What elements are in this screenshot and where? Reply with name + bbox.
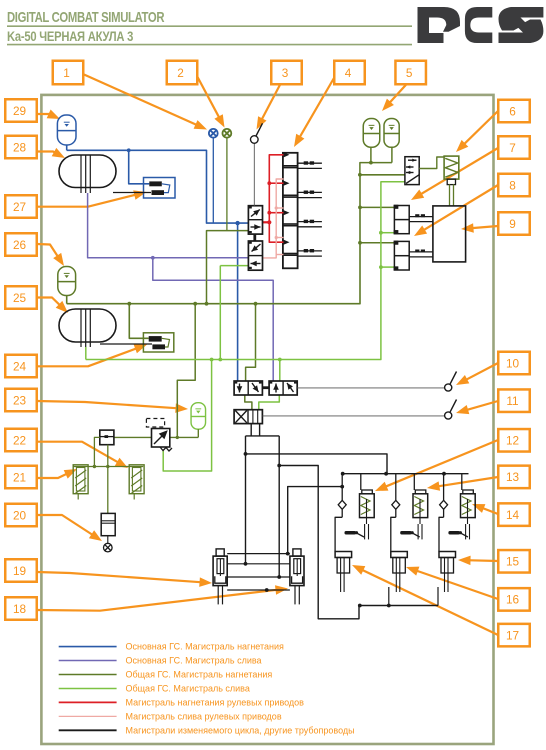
wire square to filter rail — [94, 437, 99, 466]
callout line 2 — [197, 76, 221, 120]
drain tank 20 — [101, 513, 115, 535]
diagram border frame — [41, 95, 493, 744]
pump 27 drive shaft — [113, 192, 151, 194]
callout line 13 — [435, 477, 498, 487]
junction lgreen valveB — [278, 358, 282, 362]
callout box 21 — [5, 466, 37, 489]
callout box 20 — [5, 504, 37, 527]
wire reducer bus right — [170, 436, 199, 438]
svg-text:15: 15 — [506, 555, 520, 569]
wire manifold h1 — [246, 435, 280, 437]
callout line 14 — [479, 507, 498, 514]
legend item 3 — [59, 674, 117, 676]
callout box 28 — [5, 136, 37, 159]
wire lgreen pumpA return — [381, 232, 395, 234]
junction dgreen swash branch — [254, 302, 258, 306]
wire v 245 — [245, 436, 247, 564]
wire lgreen reducer loop — [163, 360, 211, 472]
callout box 6 — [498, 100, 530, 123]
callout box 12 — [498, 429, 530, 452]
pump 24 drive shaft — [100, 343, 152, 345]
header rule 2 — [7, 44, 412, 46]
brake actuator 2 — [391, 552, 408, 593]
wire red stub 2 — [269, 182, 283, 184]
wire dgreen valveA to Xvalve — [245, 395, 252, 410]
EDV stem 12 — [364, 524, 366, 539]
EDV valve 14 — [461, 474, 463, 490]
pump 7 shaft — [409, 216, 433, 218]
accumulator 5b — [384, 119, 399, 148]
pump 24 (common sys) — [143, 333, 173, 352]
callout line 6 — [462, 111, 498, 146]
junction dgreen pumpA — [358, 206, 362, 210]
switch 11 signal wire — [262, 415, 445, 417]
switch 3 — [251, 123, 263, 143]
junction dgreen main corner — [358, 173, 362, 177]
junction rail l — [341, 472, 345, 476]
junction dgreen pump24 — [127, 302, 131, 306]
actuator rail 590 — [227, 589, 290, 591]
wire lgreen return main — [86, 182, 405, 360]
junction acc bus — [369, 161, 373, 165]
landing gear actuator 19 — [213, 549, 227, 605]
filter 21a — [73, 465, 88, 500]
wire red servo manifold — [269, 155, 283, 242]
callout box 17 — [498, 624, 530, 647]
wire dgreen relief to tank9 — [449, 184, 451, 206]
servo valve block 4 — [283, 152, 298, 268]
wire bottom loop — [318, 555, 359, 619]
legend item 7 — [59, 729, 117, 731]
callout box 7 — [498, 136, 530, 159]
callout box 10 — [498, 352, 530, 375]
svg-text:2: 2 — [177, 66, 184, 80]
svg-text:3: 3 — [282, 66, 289, 80]
svg-text:20: 20 — [13, 508, 27, 522]
callout line 22 — [37, 442, 121, 464]
wire dgreen to pump24 — [129, 304, 148, 339]
wire h 487 — [288, 487, 343, 554]
valve A (swash ctrl) — [234, 381, 262, 395]
callout line 1 — [84, 75, 200, 127]
wire actC down — [437, 587, 439, 606]
valve A-B link — [262, 386, 269, 389]
relief valve 6 (spring) — [444, 156, 459, 185]
accumulator 29 (main sys) — [57, 115, 76, 145]
callout box 5 — [395, 61, 426, 85]
wire bottom rail — [359, 605, 438, 607]
wire dgreen radiator to relief — [419, 157, 444, 169]
switch 10 signal wire — [297, 387, 445, 389]
svg-text:24: 24 — [13, 359, 27, 373]
svg-text:17: 17 — [506, 628, 519, 642]
wire actB down — [388, 587, 390, 606]
EDV valve 13 — [413, 474, 415, 490]
callout line 7 — [418, 148, 498, 196]
filter rail — [73, 466, 143, 468]
svg-text:Общая ГС. Магистраль слива: Общая ГС. Магистраль слива — [126, 683, 250, 693]
wire red stub 3 — [269, 212, 283, 214]
junction lgreen pumpB return — [379, 265, 383, 269]
svg-text:25: 25 — [13, 291, 27, 305]
callout line 28 — [37, 152, 58, 155]
pressure reducer 22 — [146, 419, 172, 452]
accumulator 26 (common sys) — [58, 267, 76, 296]
legend item 6 — [59, 715, 117, 717]
actuator rail 564 — [227, 563, 290, 565]
callout box 27 — [5, 195, 37, 218]
callout line 17 — [359, 568, 498, 635]
EDV stem 14 — [465, 524, 467, 539]
wire Xvalve down right — [259, 424, 261, 436]
wire edv rail — [343, 473, 469, 475]
filter 21b — [129, 465, 144, 500]
junction act 280 — [277, 575, 281, 579]
wire lgreen pumpB return — [381, 266, 395, 268]
junction lgreen reducer loop — [210, 358, 214, 362]
wire acc23 stub — [197, 429, 199, 437]
callout line 11 — [464, 401, 498, 411]
junction rail r — [442, 472, 446, 476]
wire blue to pump27 — [129, 150, 150, 184]
svg-text:16: 16 — [506, 593, 520, 607]
wire v 279 — [278, 436, 280, 577]
callout box 22 — [5, 429, 37, 452]
callout line 5 — [387, 85, 406, 105]
svg-text:27: 27 — [13, 200, 26, 214]
wire to actuator 2 — [391, 517, 396, 551]
legend item 4 — [59, 687, 117, 689]
wire drain stub — [107, 536, 109, 544]
svg-text:21: 21 — [13, 470, 26, 484]
svg-text:5: 5 — [406, 66, 413, 80]
wire dgreen down to swash valve A — [246, 304, 256, 381]
wire lgreen valveA drain — [219, 266, 221, 360]
callout box 24 — [5, 355, 37, 378]
junction pink 3 — [275, 236, 278, 239]
wire pink stub 2 — [276, 207, 283, 209]
callout line 16 — [414, 570, 498, 599]
callout box 9 — [498, 212, 530, 235]
junction dgreen reducer branch — [193, 302, 197, 306]
pump 7 block — [394, 206, 409, 234]
hand lever 2 — [400, 531, 412, 535]
junction act 287 — [286, 552, 290, 556]
svg-text:Ka-50 ЧЕРНАЯ АКУЛА 3: Ka-50 ЧЕРНАЯ АКУЛА 3 — [7, 29, 133, 44]
junction dgreen valve branch — [205, 302, 209, 306]
callout line 4 — [298, 78, 334, 140]
legend item 5 — [59, 701, 117, 703]
header rule 1 — [7, 25, 412, 27]
callout line 27 — [37, 194, 139, 207]
callout line 24 — [37, 347, 139, 366]
wire Xvalve down left — [250, 424, 252, 436]
brake actuator 1 — [335, 552, 352, 593]
svg-text:8: 8 — [509, 178, 516, 192]
wire h 454 — [246, 454, 388, 474]
filter square 22b — [100, 430, 114, 445]
wire dgreen up to valve V1 — [207, 231, 249, 304]
wire dgreen main pressure — [67, 175, 405, 304]
callout box 4 — [334, 61, 365, 85]
actuator rail 577 — [227, 576, 290, 578]
wire lgreen tank25 stub — [85, 347, 87, 360]
valve V1 (main/common select) — [248, 206, 262, 234]
accumulator 23 (lgreen) — [191, 403, 206, 430]
callout box 15 — [498, 550, 530, 573]
junction reducer bus — [176, 436, 179, 439]
landing gear actuator 18 — [290, 549, 304, 605]
svg-text:28: 28 — [13, 140, 27, 154]
junction lgreen valveA — [218, 358, 222, 362]
junction blue pump27 — [127, 148, 131, 152]
callout line 15 — [466, 559, 498, 562]
junction rail 389 — [387, 604, 391, 608]
check valve diamond 2 — [395, 474, 397, 501]
svg-text:Магистраль нагнетания рулевых: Магистраль нагнетания рулевых приводов — [126, 697, 305, 707]
callout line 19 — [37, 572, 204, 582]
switch 10 — [445, 372, 457, 392]
callout box 18 — [5, 597, 37, 620]
callout line 20 — [37, 515, 95, 537]
svg-text:10: 10 — [506, 356, 520, 370]
junction filter rail a — [93, 465, 96, 468]
wire dgreen branch to reducer — [177, 304, 195, 438]
callout line 23 — [37, 401, 180, 408]
svg-text:4: 4 — [345, 66, 352, 80]
svg-text:11: 11 — [506, 394, 518, 408]
actuator rail 553 — [227, 553, 290, 555]
DCS logo — [418, 7, 544, 43]
svg-text:7: 7 — [509, 141, 516, 155]
wire square down to drain — [107, 445, 109, 514]
pump 8 shaft — [409, 251, 433, 253]
switch 11 — [445, 400, 457, 420]
drain valve 20 — [104, 543, 113, 552]
junction filter rail b — [106, 465, 109, 468]
svg-text:Магистраль слива рулевых приво: Магистраль слива рулевых приводов — [126, 711, 282, 721]
wire blue down to swash valve — [237, 223, 239, 381]
valve V1-V2 link — [253, 234, 256, 241]
servo actuator rod 3 — [298, 221, 322, 223]
svg-text:13: 13 — [506, 470, 520, 484]
wire lgreen valveB to Xvalve — [259, 395, 280, 410]
junction act 246 — [244, 562, 248, 566]
wire reducer bus left — [114, 436, 152, 438]
svg-text:Основная ГС. Магистраль нагнет: Основная ГС. Магистраль нагнетания — [126, 642, 285, 652]
svg-text:22: 22 — [13, 433, 26, 447]
wire pink stub 3 — [276, 237, 283, 239]
callout line 8 — [421, 185, 498, 232]
accumulator 5a — [363, 119, 380, 148]
valve B (swash ctrl) — [269, 381, 297, 395]
wire blue main pressure — [67, 150, 249, 223]
callout box 8 — [498, 174, 530, 197]
tank 28 (main sys reservoir) — [59, 155, 116, 188]
brake actuator 3 — [439, 552, 456, 593]
svg-text:Магистрали изменяемого цикла,: Магистрали изменяемого цикла, другие тру… — [126, 725, 355, 735]
wire dgreen acc5 bus — [370, 147, 372, 162]
svg-text:29: 29 — [13, 104, 26, 118]
wire lgreen down valveB — [279, 360, 281, 382]
svg-text:Общая ГС. Магистраль нагнетани: Общая ГС. Магистраль нагнетания — [126, 670, 273, 680]
junction dgreen pumpB — [358, 241, 362, 245]
junction act 267 — [265, 588, 269, 592]
wire pink servo manifold — [263, 179, 284, 258]
wire h 465 — [279, 466, 318, 556]
wire purple tank28 drain — [88, 193, 249, 258]
callout line 3 — [260, 85, 280, 123]
junction red 2 — [267, 181, 271, 185]
callout box 3 — [271, 61, 302, 85]
callout box 19 — [5, 559, 37, 582]
callout box 29 — [5, 99, 37, 122]
tank 25 (common sys reservoir) — [59, 309, 116, 342]
drain valve 2 (green) — [223, 129, 232, 138]
callout line 26 — [37, 244, 60, 259]
junction pink 2 — [275, 206, 278, 209]
wire blue acc29 to main — [66, 145, 68, 150]
callout box 1 — [53, 61, 84, 85]
callout box 11 — [498, 389, 530, 412]
callout box 26 — [5, 233, 37, 256]
callout line 29 — [37, 114, 53, 116]
junction 279/465 — [277, 464, 281, 468]
svg-text:12: 12 — [506, 434, 519, 448]
junction diamond1 feed — [340, 485, 344, 489]
callout line 25 — [37, 298, 62, 308]
wire to actuator 1 — [335, 517, 342, 551]
servo actuator rod 1 — [298, 162, 322, 164]
wire pink stub 4 — [276, 254, 283, 256]
svg-text:Основная ГС. Магистраль слива: Основная ГС. Магистраль слива — [126, 656, 262, 666]
svg-text:14: 14 — [506, 508, 520, 522]
junction rail feed — [384, 472, 388, 476]
wire dgreen drain stub — [226, 138, 228, 231]
radiator / cooler — [405, 157, 419, 185]
wire dgreen acc26 stub — [66, 296, 68, 304]
pump 8 block — [394, 241, 409, 270]
callout box 13 — [498, 466, 530, 489]
switch 3 signal wire — [253, 143, 255, 205]
callout box 23 — [5, 389, 37, 412]
EDV valve 12 — [360, 474, 362, 490]
svg-text:1: 1 — [63, 66, 70, 80]
svg-text:23: 23 — [13, 393, 27, 407]
wire to actuator 3 — [439, 517, 444, 551]
callout box 14 — [498, 503, 530, 525]
callout box 2 — [167, 61, 198, 85]
callout line 21 — [37, 472, 70, 478]
pump 27 (main sys) — [144, 178, 176, 199]
valve X (shutoff) — [234, 410, 262, 424]
wire red from valve V1 — [263, 221, 270, 223]
legend item 1 — [59, 646, 117, 648]
svg-text:19: 19 — [13, 564, 26, 578]
drain valve 1 (blue) — [209, 129, 218, 138]
junction blue valve feed — [235, 221, 239, 225]
wire blue drain stub — [212, 138, 214, 223]
servo actuator rod 2 — [298, 191, 322, 193]
junction red valve — [267, 220, 271, 224]
svg-text:9: 9 — [509, 217, 516, 231]
junction purple branch — [151, 256, 155, 260]
junction 245/454 — [244, 452, 248, 456]
callout line 10 — [463, 363, 498, 381]
tank 9 (common sys reservoir) — [433, 206, 466, 262]
hand lever 1 — [345, 531, 357, 535]
callout box 16 — [498, 588, 530, 611]
hand lever 3 — [448, 531, 460, 535]
wire dgreen to pumpA — [360, 206, 394, 208]
junction red 3 — [267, 211, 271, 215]
callout line 18 — [37, 589, 280, 610]
callout line 12 — [382, 440, 498, 488]
svg-text:6: 6 — [509, 104, 516, 118]
svg-text:26: 26 — [13, 238, 27, 252]
wire purple branch to valve row — [153, 258, 273, 381]
svg-text:18: 18 — [13, 602, 27, 616]
junction rail 360 — [358, 604, 362, 608]
check valve diamond 1 — [341, 474, 343, 501]
valve V2 (drain select) — [248, 241, 262, 270]
legend item 2 — [59, 660, 117, 662]
callout box 25 — [5, 286, 37, 309]
check valve diamond 3 — [443, 474, 445, 501]
servo actuator rod 4 — [298, 250, 322, 252]
svg-text:DIGITAL COMBAT SIMULATOR: DIGITAL COMBAT SIMULATOR — [7, 9, 165, 26]
junction lgreen pumpA return — [379, 231, 383, 235]
EDV stem 13 — [417, 524, 419, 539]
wire dgreen to pumpB — [360, 242, 394, 244]
callout line 9 — [469, 226, 498, 228]
